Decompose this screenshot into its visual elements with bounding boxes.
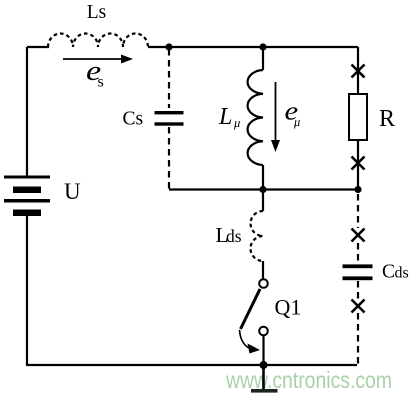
svg-text:www.cntronics.com: www.cntronics.com [225,367,392,393]
resistor R [349,94,367,140]
svg-text:s: s [98,74,104,91]
wire Lds top [262,190,264,212]
x-mark Cds top [352,229,365,242]
x-mark R top [352,65,365,78]
wire left branch [26,47,28,176]
ground [251,389,278,393]
node junction R bottom [354,186,361,193]
inductor Lds [250,211,263,261]
svg-text:L: L [218,104,232,130]
wire R branch bottom [357,140,359,190]
wire left-bottom [27,216,264,365]
svg-text:Cs: Cs [123,109,144,130]
node bottom junction [260,361,268,369]
svg-text:ds: ds [226,226,242,246]
inductor Ls [48,34,148,48]
capacitor Cs [155,111,184,126]
switch Q1 bottom contact [259,327,268,336]
svg-text:Ls: Ls [87,2,107,23]
svg-text:C: C [382,262,395,283]
wire R branch top [357,47,359,94]
x-mark Cds bottom [352,300,365,313]
capacitor Cds [343,264,373,280]
wire Q1 bottom [262,336,264,366]
wire bottom-right [264,364,358,366]
arrow e_mu [275,82,277,141]
wire top-left horizontal [27,46,49,48]
wire Lds bottom [262,261,264,279]
switch Q1 top contact [259,279,268,288]
wire Lmu top [262,47,264,70]
svg-text:μ: μ [233,116,240,130]
wire middle rail [169,188,358,190]
node top junction Cs [165,43,172,50]
wire Cs lower dashed [168,127,170,189]
svg-text:R: R [379,106,395,132]
svg-text:Q1: Q1 [275,295,302,320]
inductor Lmu [248,70,263,165]
wire Cds dashed bottom [357,313,359,365]
wire Lmu bottom [262,165,264,190]
switch Q1 arrow [240,330,251,349]
node bottom junction Lmu [259,186,266,193]
wire Cs upper dashed [168,49,170,108]
node top junction Lmu [259,43,266,50]
svg-text:U: U [64,179,81,204]
wire Cds dashed mid2 [357,281,359,299]
wire ground stem [262,365,265,389]
battery U [4,176,50,217]
arrow e_s [63,58,122,60]
wire top rail [148,46,358,48]
switch Q1 lever [241,289,261,329]
wire Cds dashed mid1 [357,243,359,263]
x-mark R bottom [352,157,365,170]
svg-text:μ: μ [293,115,300,129]
svg-text:ds: ds [395,265,409,282]
wire Cds dashed top [357,194,359,228]
